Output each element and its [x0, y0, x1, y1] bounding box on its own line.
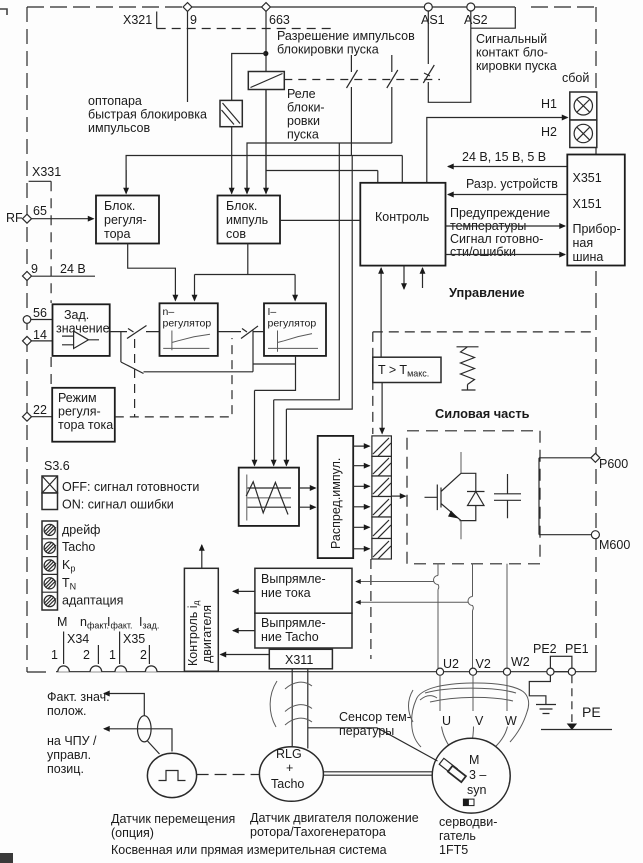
svg-text:серводви-: серводви-	[439, 815, 497, 829]
wire: 24V line arrow into monitor	[448, 166, 567, 168]
svg-text:Сигнал готовно-: Сигнал готовно-	[450, 232, 543, 246]
terminal 14 diamond	[23, 336, 32, 345]
svg-text:тора: тора	[104, 227, 130, 241]
connector X331 dashed strip line	[50, 181, 52, 303]
svg-text:9: 9	[190, 13, 197, 27]
wire: W phase into motor	[491, 675, 508, 751]
dashed enclosure border: top-left dashed segment	[27, 6, 184, 8]
PWM triangle carrier waveform	[246, 482, 288, 515]
junction dot on 663 wire	[263, 51, 268, 56]
wire: vertical drop 352.2 from y155.5 to PWM feed	[286, 156, 352, 410]
terminal 22 diamond	[23, 412, 32, 421]
tacho rectifier box (Выпрямление Tacho)	[255, 613, 352, 648]
dashed control line from mode box	[115, 338, 232, 417]
wire: bottom border main line	[56, 671, 596, 673]
svg-text:полож.: полож.	[47, 704, 87, 718]
connector X311 box	[269, 649, 332, 669]
svg-text:дрейф: дрейф	[62, 523, 100, 537]
I-regulator box	[264, 303, 326, 356]
svg-text:24 В: 24 В	[60, 262, 86, 276]
svg-text:X311: X311	[285, 653, 313, 667]
pulse symbol in position sensor	[159, 771, 186, 781]
wire: monitor top connection 2	[401, 156, 403, 183]
wire: to CNC arrow	[104, 729, 172, 752]
wire: n-regulator to I-regulator with switch S2	[218, 326, 264, 339]
PWM reference line upper	[247, 487, 291, 489]
contact switch on wire A	[347, 55, 358, 156]
terminal PE2 circle	[547, 668, 554, 675]
svg-text:регулятор: регулятор	[163, 318, 212, 330]
wire: terminal 65 arrow to regulator-block	[32, 218, 94, 220]
svg-text:H2: H2	[541, 125, 557, 139]
svg-text:3 –: 3 –	[469, 768, 486, 782]
svg-text:RLG: RLG	[276, 747, 302, 761]
wire: terminal 14 stub to setpoint box	[32, 340, 53, 342]
temperature comparator box T>Tmax	[373, 357, 441, 382]
svg-text:Зад.: Зад.	[64, 308, 89, 322]
mode-of-current-regulator box (Режим регулятора тока)	[52, 388, 115, 442]
lamp H1 box	[570, 92, 597, 120]
svg-text:тора тока: тора тока	[58, 418, 113, 432]
terminal AS2 circle	[467, 3, 475, 11]
svg-text:22: 22	[33, 403, 47, 417]
dashed power-section boundary corner	[373, 332, 596, 434]
svg-text:Режим: Режим	[58, 391, 97, 405]
svg-text:адаптация: адаптация	[62, 594, 123, 608]
switch S3.6 lower box	[42, 493, 58, 510]
lamp H1 symbol	[574, 97, 592, 115]
svg-text:сбой: сбой	[562, 71, 589, 85]
wire: terminal 9 down stub	[187, 11, 189, 102]
dashed enclosure border: right side	[595, 7, 597, 645]
potentiometer TN symbol	[44, 578, 56, 589]
lamp H2 symbol	[574, 124, 592, 142]
svg-text:I–: I–	[268, 306, 277, 318]
svg-text:V: V	[475, 714, 484, 728]
terminal V2 circle	[469, 668, 476, 675]
terminal 9 (X331) diamond	[23, 272, 32, 281]
svg-text:пературы: пературы	[339, 724, 394, 738]
wire: I-regulator output down	[255, 356, 296, 391]
svg-text:n–: n–	[163, 306, 175, 318]
instrument bus box X351/X151	[567, 155, 625, 266]
PE2-PE1 bridge rectangle	[550, 656, 572, 671]
svg-text:ротора/Тахогенератора: ротора/Тахогенератора	[250, 825, 386, 839]
motor M1 circle	[432, 738, 510, 813]
terminal 9 (X321) diamond	[183, 3, 192, 12]
wire: ready/error signal arrow to bus box	[446, 254, 566, 256]
svg-text:H1: H1	[541, 97, 557, 111]
svg-text:AS2: AS2	[464, 13, 488, 27]
svg-text:Блок.: Блок.	[226, 199, 257, 213]
lamp H2 box	[570, 120, 597, 148]
svg-text:управл.: управл.	[47, 748, 91, 762]
wire H2 net: horizontal y155.5	[126, 156, 402, 193]
wire: PWM output 2 to pulse distributor	[299, 506, 316, 508]
svg-text:1FT5: 1FT5	[439, 843, 468, 857]
wire: temperature comparator up into monitor	[380, 268, 382, 357]
svg-text:ние Tacho: ние Tacho	[261, 630, 319, 644]
wire: ellipse to position sensor diagonal	[148, 741, 160, 754]
wire: driver to power section arrow	[391, 495, 405, 497]
svg-text:PE: PE	[582, 704, 601, 720]
PWM vertical axis	[246, 475, 248, 521]
driver stage hatched column	[372, 436, 392, 559]
wire: monitor bottom up-arrow stub	[422, 268, 424, 288]
svg-text:X34: X34	[67, 632, 89, 646]
svg-text:блокировки пуска: блокировки пуска	[277, 43, 379, 57]
svg-text:сти/ошибки: сти/ошибки	[450, 245, 516, 259]
wire: DC bus vertical inside power box	[538, 458, 540, 535]
wire: X311 cable pair to encoder	[292, 669, 308, 750]
temperature sensor element in motor	[439, 758, 466, 782]
wire: vertical drop 339.3 from y143 to PWM feed	[274, 143, 340, 400]
current sensor loop on U2 wire	[434, 576, 439, 590]
wire: current measure line U2 to rectifier	[356, 581, 434, 583]
wires: pulse distributor to driver stage arrows x6	[353, 445, 369, 447]
svg-text:W: W	[505, 714, 517, 728]
shaft coupling double line RLG to motor	[324, 772, 433, 775]
svg-text:S3.6: S3.6	[44, 459, 70, 473]
terminal U2 circle	[436, 668, 443, 675]
current sensor loop on V2 wire	[468, 597, 473, 611]
power section dashed box	[407, 431, 540, 564]
position sensor circle (optional encoder)	[147, 753, 196, 797]
potentiometer дрейф symbol	[44, 524, 56, 535]
svg-text:Распред.импул.: Распред.импул.	[329, 458, 343, 549]
svg-text:M600: M600	[599, 538, 630, 552]
svg-text:двигателя: двигателя	[200, 605, 214, 663]
wire: setpoint to n-regulator with switch S1	[110, 326, 160, 339]
wire: 663 continues below relay	[265, 90, 267, 171]
dashed power-section boundary below driver	[370, 559, 372, 659]
svg-text:сов: сов	[226, 227, 246, 241]
wire: regulator-block output to n-regulator	[128, 244, 176, 301]
svg-text:U2: U2	[443, 657, 459, 671]
svg-text:65: 65	[33, 204, 47, 218]
svg-text:Предупреждение: Предупреждение	[450, 206, 550, 220]
regulator blocking box (Блок. регулятора)	[96, 196, 159, 244]
svg-text:2: 2	[83, 648, 90, 662]
svg-text:Контроль: Контроль	[375, 210, 429, 224]
svg-text:2: 2	[140, 648, 147, 662]
svg-text:24 В, 15 В, 5 В: 24 В, 15 В, 5 В	[462, 150, 546, 164]
dashed control line to switch S1	[134, 339, 136, 417]
cable shield arcs on sensor wire	[409, 690, 438, 722]
arrow into pulse-block box input 3 (663 line)	[265, 171, 267, 194]
wire: to M600 terminal	[539, 534, 592, 536]
pulse distributor box (Распред. импул.)	[318, 436, 354, 558]
wire: 663 vertical through relay down to pulse-block box	[265, 11, 267, 192]
svg-text:PE1: PE1	[565, 642, 589, 656]
svg-text:Выпрямле-: Выпрямле-	[261, 616, 326, 630]
svg-text:W2: W2	[511, 655, 530, 669]
driver stage hatch strokes	[373, 438, 391, 559]
svg-text:шина: шина	[573, 250, 604, 264]
svg-text:syn: syn	[467, 783, 487, 797]
freewheel diode D1	[467, 492, 485, 506]
svg-text:+: +	[286, 761, 293, 775]
braking resistor R symbol	[457, 347, 479, 390]
svg-text:Сенсор тем-: Сенсор тем-	[339, 710, 411, 724]
arrow into PWM input 1	[254, 390, 256, 465]
svg-text:Прибор-: Прибор-	[573, 222, 621, 236]
wire H1 net: horizontal y143	[247, 143, 392, 192]
svg-text:импульсов: импульсов	[88, 121, 150, 135]
dashed enclosure border: bottom-left dash	[27, 671, 46, 673]
svg-text:Косвенная или прямая измерител: Косвенная или прямая измерительная систе…	[111, 843, 387, 857]
wire: monitor down stub arrow	[403, 266, 405, 289]
svg-text:регуля-: регуля-	[58, 405, 101, 419]
svg-text:P600: P600	[599, 457, 628, 471]
setpoint box (Зад. значение)	[53, 304, 110, 356]
relay K (Реле блокировки пуска) coil box	[248, 72, 284, 90]
svg-text:значение: значение	[56, 322, 110, 336]
svg-text:Силовая часть: Силовая часть	[435, 406, 530, 421]
wire H3 net: horizontal y170.5	[266, 170, 378, 172]
wire: pulse-block output branch	[195, 244, 296, 275]
svg-text:X351: X351	[573, 171, 602, 185]
PE junction triangle	[567, 724, 577, 731]
svg-text:Tacho: Tacho	[62, 540, 95, 554]
svg-text:Разрешение импульсов: Разрешение импульсов	[277, 29, 415, 43]
svg-text:Блок.: Блок.	[104, 199, 135, 213]
terminal AS1 circle	[424, 3, 432, 11]
n-regulator box	[160, 303, 218, 356]
svg-text:оптопара: оптопара	[88, 94, 142, 108]
arrow into n-regulator input 2	[194, 275, 196, 301]
dashed enclosure border: top solid segment through terminals	[184, 6, 515, 8]
wire: AS2 stub to top border corner	[471, 7, 516, 28]
IGBT Q1 symbol	[425, 473, 462, 520]
wire: bypass line to PWM area	[144, 331, 296, 372]
IGBT Q1 emitter arrow	[448, 511, 459, 519]
svg-text:OFF: сигнал готовности: OFF: сигнал готовности	[62, 480, 199, 494]
PWM reference line middle	[247, 497, 291, 499]
wire: optocoupler output down to pulse-block box input arrow	[231, 127, 233, 194]
motor cable shield cloud	[412, 683, 529, 747]
optocoupler diagonal strokes	[222, 103, 241, 125]
arrow into PWM input 2	[273, 400, 275, 466]
wire: temperature sensor line from X311	[308, 728, 438, 761]
svg-text:пуска: пуска	[287, 128, 319, 142]
wire: PE2 to ground	[529, 675, 550, 704]
terminal W2 circle	[503, 668, 510, 675]
PE rail line	[541, 729, 612, 731]
svg-text:X35: X35	[123, 632, 145, 646]
svg-text:PE2: PE2	[533, 642, 557, 656]
contact switch on wire B	[387, 55, 398, 143]
wire: arrow down into driver column top	[381, 383, 383, 434]
svg-text:быстрая блокировка: быстрая блокировка	[88, 108, 207, 122]
wire: branch from junction to optocoupler	[232, 54, 266, 101]
svg-text:блоки-: блоки-	[287, 101, 325, 115]
PWM reference line lower	[247, 506, 291, 508]
arrow into regulator-block box input	[125, 170, 127, 194]
potentiometer column box	[42, 521, 58, 610]
terminal ticks X34/X35	[64, 632, 150, 665]
svg-text:контакт бло-: контакт бло-	[476, 46, 548, 60]
wire: current measure line V2 to rectifier	[356, 601, 468, 603]
PWM comparator box	[239, 468, 299, 526]
relay coil diagonal	[251, 74, 283, 88]
optocoupler box	[220, 100, 242, 126]
DC link capacitor C1	[494, 474, 521, 518]
arrow into I-regulator input	[294, 275, 296, 301]
svg-text:(опция): (опция)	[111, 826, 154, 840]
svg-text:Выпрямле-: Выпрямле-	[261, 572, 326, 586]
n-regulator response curve	[163, 331, 210, 351]
wire: position actual value arrow	[104, 694, 144, 716]
svg-text:Сигнальный: Сигнальный	[476, 32, 547, 46]
shaft dash link sensor to encoder	[197, 774, 259, 776]
connector ellipse on position cable	[138, 716, 152, 742]
svg-text:9: 9	[31, 262, 38, 276]
wire: U phase into motor	[440, 675, 454, 752]
wire: temperature warning arrow to bus box	[446, 225, 566, 227]
svg-text:X321: X321	[123, 13, 152, 27]
arrow into PWM input 3	[285, 409, 287, 465]
terminal PE1 circle	[568, 668, 575, 675]
wire: W2 phase from power box	[506, 564, 508, 669]
wire: PWM output 1 to pulse distributor	[299, 487, 316, 489]
IGBT emitter stub	[460, 521, 462, 540]
terminal 65 diamond	[23, 214, 32, 223]
svg-text:регуля-: регуля-	[104, 213, 147, 227]
svg-text:Датчик перемещения: Датчик перемещения	[111, 812, 235, 826]
svg-text:1: 1	[109, 648, 116, 662]
svg-text:ние тока: ние тока	[261, 586, 311, 600]
IGBT collector-diode rail	[460, 473, 476, 520]
dashed enclosure border: left side	[26, 7, 28, 672]
signal contact AS1-AS2 with switch	[423, 11, 471, 102]
cable shield arcs on encoder pair	[270, 681, 312, 727]
terminal M600 circle	[591, 531, 599, 539]
connector X321 dashed bracket line	[157, 28, 336, 30]
svg-text:импуль: импуль	[226, 213, 268, 227]
svg-text:гатель: гатель	[439, 829, 476, 843]
svg-text:на ЧПУ /: на ЧПУ /	[47, 734, 97, 748]
svg-text:V2: V2	[476, 657, 491, 671]
svg-text:AS1: AS1	[421, 13, 445, 27]
svg-text:14: 14	[33, 328, 47, 342]
svg-text:регулятор: регулятор	[268, 318, 317, 330]
wire: terminal 22 stub to mode box	[32, 416, 53, 418]
wire: bypass branch vertical at setpoint output	[121, 332, 144, 374]
wire: monitor top connection 1	[377, 171, 379, 183]
svg-text:ная: ная	[573, 236, 594, 250]
svg-text:RF: RF	[6, 211, 23, 225]
svg-text:Датчик двигателя положение: Датчик двигателя положение	[250, 811, 419, 825]
dashed enclosure border: right side bottom solid	[595, 645, 597, 672]
motor nameplate indicator	[463, 799, 474, 806]
wire: pulse-block to monitor	[280, 219, 360, 221]
I-regulator response curve	[268, 331, 318, 352]
scan artifact bottom-left blob	[0, 853, 13, 863]
ground symbol	[536, 705, 556, 714]
potentiometer Tacho symbol	[44, 542, 56, 553]
pulse blocking box (Блок. импульсов)	[218, 196, 281, 244]
svg-text:Tacho: Tacho	[271, 777, 304, 791]
potentiometer адаптация symbol	[44, 595, 56, 606]
svg-text:кировки пуска: кировки пуска	[476, 59, 557, 73]
svg-text:M: M	[57, 615, 67, 629]
arrow into pulse-block box input 2	[246, 170, 248, 194]
svg-text:X331: X331	[32, 165, 61, 179]
wire: monitor to fault lamps	[427, 118, 568, 183]
svg-text:1: 1	[51, 648, 58, 662]
svg-text:ON: сигнал ошибки: ON: сигнал ошибки	[62, 498, 174, 512]
svg-text:56: 56	[33, 306, 47, 320]
svg-text:Факт. знач.: Факт. знач.	[47, 690, 110, 704]
wire: PE1 dashed down to PE rail	[571, 675, 573, 722]
wire: terminal 56 stub to setpoint box	[31, 319, 53, 321]
terminal bumps on border	[58, 666, 157, 672]
potentiometer Kp symbol	[44, 560, 56, 571]
wire: V phase into motor	[472, 675, 474, 746]
wire: device-enable arrow into monitor	[448, 194, 567, 196]
wire: motor monitor up arrow	[201, 545, 203, 568]
wire: X311 to motor monitor arrow	[221, 654, 270, 656]
dashed enclosure border: top-right dashed segment	[531, 6, 596, 8]
svg-text:663: 663	[269, 13, 290, 27]
wire: 24V stub	[32, 275, 96, 277]
connector X331 bracket	[29, 180, 51, 182]
wire: tacho rectifier output arrow left	[233, 630, 255, 632]
terminal P600 diamond	[591, 453, 600, 462]
connector X331 dashed strip line lower segments	[50, 357, 52, 387]
svg-text:X151: X151	[573, 197, 602, 211]
svg-text:ровки: ровки	[287, 114, 320, 128]
svg-text:позиц.: позиц.	[47, 762, 84, 776]
svg-text:Реле: Реле	[287, 87, 316, 101]
svg-text:Контроль iд: Контроль iд	[186, 600, 201, 666]
svg-text:Разр. устройств: Разр. устройств	[466, 177, 558, 191]
wire: current rectifier output arrow left	[233, 590, 255, 592]
op-amp U1 symbol in setpoint box	[62, 331, 99, 348]
mechanical dashed link from relay to contacts	[284, 79, 440, 81]
encoder RLG+Tacho circle	[259, 747, 323, 802]
terminal 663 diamond	[262, 3, 271, 12]
svg-text:Управление: Управление	[449, 285, 525, 300]
wire: to P600 terminal	[539, 457, 592, 459]
wire: V2 phase from power box	[472, 564, 474, 669]
svg-text:U: U	[442, 714, 451, 728]
switch S3.6 upper box with X	[42, 476, 58, 493]
svg-text:M: M	[469, 753, 479, 767]
scan artifact top-left corner	[0, 9, 7, 15]
IGBT Q1 collector stub	[460, 452, 462, 473]
monitor box (Контроль)	[360, 183, 445, 266]
current rectifier box (Выпрямление тока)	[255, 568, 352, 613]
connector X321 tick	[156, 12, 158, 29]
wire: U2 phase from power box	[437, 564, 439, 669]
motor current monitor box (Контроль iд двигателя)	[184, 568, 218, 671]
terminal 56 circle	[23, 316, 31, 324]
